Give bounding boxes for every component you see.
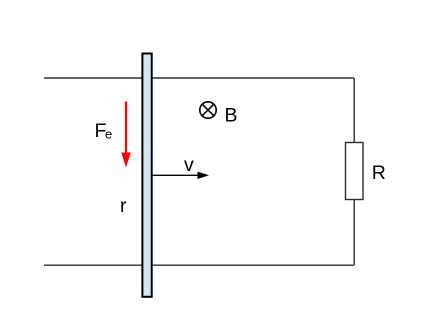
- svg-text:r: r: [120, 195, 127, 217]
- svg-text:v: v: [184, 154, 194, 176]
- svg-text:B: B: [225, 105, 238, 127]
- svg-text:R: R: [372, 162, 386, 184]
- svg-text:e: e: [105, 127, 112, 142]
